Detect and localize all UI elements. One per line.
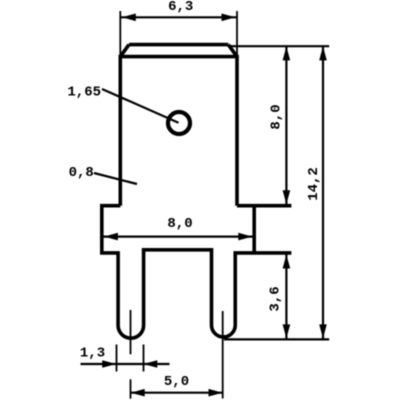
svg-text:8,0: 8,0	[269, 104, 285, 129]
svg-text:1,65: 1,65	[67, 85, 101, 101]
svg-text:6,3: 6,3	[168, 0, 193, 15]
svg-text:14,2: 14,2	[306, 167, 322, 201]
svg-text:5,0: 5,0	[164, 374, 189, 390]
svg-text:8,0: 8,0	[167, 216, 192, 232]
svg-text:3,6: 3,6	[268, 286, 284, 311]
svg-text:1,3: 1,3	[80, 345, 105, 361]
svg-text:0,8: 0,8	[69, 165, 94, 181]
